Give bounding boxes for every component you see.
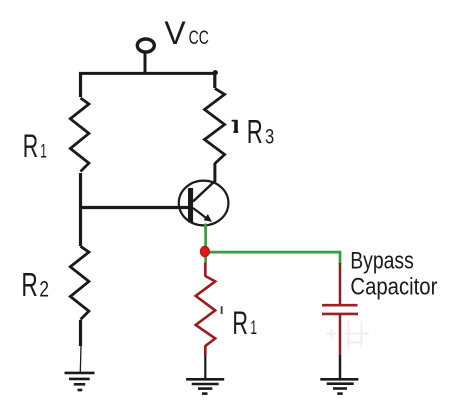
label Vcc [164,15,208,51]
node: top rail right corner [213,70,218,75]
wire: R1 bottom to R2 top (base junction at y=206) [79,173,82,246]
wire: R3 top lead [213,72,216,88]
svg-text:3: 3 [265,124,274,148]
ground (middle) [186,379,224,393]
label Bypass Capacitor [350,248,437,300]
wire: top rail [79,72,216,75]
svg-text:CC: CC [189,27,209,49]
label R1 (emitter) [232,305,257,341]
wire: thin lead into left ground [79,346,82,372]
label R1 (upper) [23,128,47,164]
wire: capacitor bottom lead (dark red) [339,314,342,355]
transistor Q1 [179,181,229,226]
Vcc terminal [137,39,154,52]
svg-text:1: 1 [250,318,257,339]
svg-text:R: R [23,128,38,164]
current mark I (R3) [232,120,239,133]
wire: R2 bottom lead [79,320,82,346]
wire: red dot to emitter resistor (dark red) [204,263,207,277]
svg-text:Bypass: Bypass [350,248,414,274]
wire: emitter (green) [204,224,207,264]
resistor R1 (emitter, dark red) [196,276,216,346]
resistor R3 [205,88,225,163]
ground (right) [320,379,358,393]
wire: capacitor lead into right ground (black) [339,355,342,379]
svg-text:1: 1 [40,141,47,162]
svg-text:2: 2 [39,276,49,301]
wire: capacitor top lead (dark red) [339,263,342,305]
wire: emitter node to bypass capacitor (green) [206,252,341,264]
svg-text:Capacitor: Capacitor [350,275,437,301]
label R2 [21,266,49,303]
wire: lead into middle ground (black) [204,355,206,378]
capacitor C1 (bypass) [322,305,358,314]
svg-text:R: R [232,305,248,341]
wire: R1 top lead [79,72,82,97]
wire: emitter resistor bottom lead (dark red) [204,346,207,356]
wire: Vcc stub [144,53,147,75]
current mark I (emitter R1) [221,306,223,314]
resistor R1 (upper bias) [70,98,89,172]
svg-text:V: V [164,15,186,51]
wire: base [79,206,189,209]
svg-text:R: R [21,266,37,303]
node: emitter junction (red dot) [200,246,209,256]
label R3 [247,113,274,150]
ground (left) [65,373,95,390]
resistor R2 [70,246,89,319]
svg-text:R: R [247,113,263,150]
wire: collector lead [213,163,216,182]
